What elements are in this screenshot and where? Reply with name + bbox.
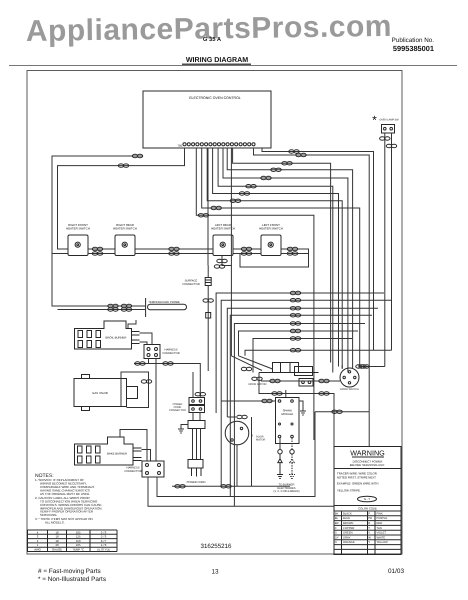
- wire run3 to door motor: [227, 416, 236, 418]
- svg-text:316255216: 316255216: [201, 543, 233, 550]
- bake burner top loop wire: [120, 430, 147, 462]
- wire sw4 right loop: [240, 249, 309, 267]
- wire bottom run 2: [157, 412, 315, 497]
- svg-text:YELLOW STRIPE.: YELLOW STRIPE.: [337, 489, 361, 493]
- svg-text:RED: RED: [377, 522, 383, 525]
- wire below left rear switch: [222, 256, 231, 266]
- wire door switch to lamp lead: [359, 366, 385, 368]
- wire splice: [246, 185, 256, 188]
- wire bus D lower: [207, 286, 209, 372]
- wire splice: [289, 150, 299, 153]
- wire harness left stub: [134, 363, 149, 365]
- wire splice: [290, 349, 300, 352]
- spark electrode wire right: [291, 438, 293, 449]
- svg-text:MODULE: MODULE: [281, 412, 293, 416]
- svg-text:G - Y: G - Y: [364, 497, 371, 501]
- svg-text:BROIL BURNER: BROIL BURNER: [106, 335, 127, 339]
- wire into spark module top: [221, 400, 275, 402]
- svg-text:POWER CORD: POWER CORD: [187, 481, 206, 484]
- ground symbol right of spark module: [300, 411, 306, 415]
- wire door motor area drop 1: [251, 417, 253, 486]
- oven lamp switch: [382, 125, 395, 134]
- wire harness run 5: [234, 324, 365, 507]
- wire splice: [169, 252, 179, 255]
- spark electrode right tip: [289, 450, 295, 479]
- wire middle bus D upper: [207, 148, 209, 266]
- wire fan 7 from terminal: [207, 148, 342, 368]
- wire connector to strain block b: [199, 413, 201, 421]
- wire splice: [271, 168, 281, 171]
- svg-text:ORANGE: ORANGE: [343, 541, 355, 544]
- wire fan 5 from terminal: [218, 148, 333, 373]
- svg-text:R: R: [368, 522, 370, 525]
- wire harness run 1: [216, 293, 384, 413]
- bake burner igniter teeth top row: [78, 446, 101, 453]
- warning box frame: [334, 447, 401, 555]
- wire bus D mid: [207, 266, 209, 278]
- broil burner igniter teeth bottom row: [78, 341, 101, 348]
- svg-text:BROWN: BROWN: [343, 522, 353, 525]
- wire splice: [118, 164, 128, 167]
- surface connector body: [205, 278, 211, 286]
- color code header divider: [334, 505, 401, 507]
- title underline: [182, 64, 251, 65]
- svg-text:*: *: [372, 113, 377, 127]
- wire splice: [290, 291, 300, 294]
- door latch base: [259, 372, 319, 374]
- temperature probe flange: [145, 298, 147, 317]
- gas valve top tab: [82, 375, 90, 379]
- wire harness run 8: [245, 350, 392, 356]
- wire splice: [121, 304, 131, 307]
- wire sw3-sw4 upper: [233, 248, 261, 250]
- wire splice: [290, 329, 300, 332]
- wire splice: [92, 247, 102, 250]
- wire connector to strain block a: [192, 413, 194, 421]
- tracer example oval: [358, 496, 377, 502]
- wire latch to door switch: [261, 380, 340, 382]
- wire oven lamp sw left lead: [384, 133, 386, 367]
- svg-text:UL STYLE: UL STYLE: [97, 548, 110, 552]
- door latch lever: [239, 356, 273, 369]
- temperature probe body: [148, 304, 187, 310]
- svg-text:PR: PR: [368, 517, 372, 520]
- wire broil burner to harness connector 2: [140, 342, 148, 345]
- svg-text:ELECTRONIC OVEN CONTROL: ELECTRONIC OVEN CONTROL: [189, 96, 241, 100]
- wire splice: [132, 154, 142, 157]
- svg-text:TEMPERATURE PROBE: TEMPERATURE PROBE: [148, 300, 180, 304]
- svg-text:BLACK: BLACK: [343, 512, 352, 515]
- wire splice: [237, 415, 247, 418]
- power cord conductors: [193, 429, 201, 460]
- wire splice: [290, 337, 300, 340]
- wire splice: [214, 265, 224, 268]
- svg-text:BAKE BURNER: BAKE BURNER: [107, 452, 127, 456]
- power cord plug body: [188, 460, 203, 469]
- svg-text:(1, 2, 3 OR 4 AREAS): (1, 2, 3 OR 4 AREAS): [274, 490, 300, 493]
- svg-text:G 35 A: G 35 A: [203, 36, 222, 43]
- wire broil burner to harness connector: [140, 333, 153, 345]
- svg-text:HEATER SWITCH: HEATER SWITCH: [259, 227, 283, 231]
- svg-text:COPPER: COPPER: [343, 527, 354, 530]
- wire splice: [290, 307, 300, 310]
- wire latch left drop to bus: [259, 373, 334, 413]
- svg-text:DOOR SWITCH: DOOR SWITCH: [340, 388, 359, 391]
- svg-text:HEATER SWITCH: HEATER SWITCH: [113, 227, 137, 231]
- svg-text:V: V: [368, 532, 370, 535]
- wire splice: [290, 322, 300, 325]
- wire harness run 6: [239, 331, 359, 356]
- power cord connector upper half: [189, 398, 205, 405]
- wire fan 3 from terminal: [227, 148, 352, 368]
- broil burner igniter teeth top row: [78, 331, 101, 338]
- svg-text:EXAMPLE: GREEN WIRE WITH: EXAMPLE: GREEN WIRE WITH: [337, 482, 378, 486]
- wire sw1-sw2 upper: [88, 248, 115, 250]
- svg-text:OVEN LAMP SW: OVEN LAMP SW: [379, 119, 399, 122]
- wire splice: [282, 162, 292, 165]
- door motor circle: [225, 421, 249, 445]
- wire harness run 7: [253, 339, 352, 373]
- wire harness run 2: [221, 300, 391, 486]
- wire splice: [175, 485, 185, 488]
- wire bottom run 3: [148, 412, 334, 506]
- svg-text:BR: BR: [335, 522, 339, 525]
- wire splice: [272, 392, 282, 395]
- door latch cam blocks: [273, 363, 313, 376]
- left rear heater switch: [213, 235, 233, 256]
- wire door area horizontal: [315, 411, 369, 413]
- wire bottom run 1: [172, 485, 290, 487]
- wire splice: [319, 392, 329, 395]
- svg-text:CONNECTOR: CONNECTOR: [162, 352, 179, 355]
- broil burner terminals: [132, 332, 140, 344]
- svg-text:HEATER SWITCH: HEATER SWITCH: [66, 227, 90, 231]
- wire lower probe lead: [58, 309, 146, 311]
- wire EOC-left to temperature probe bus: [52, 156, 145, 306]
- svg-text:DOOR MOTOR: DOOR MOTOR: [248, 383, 266, 386]
- warning divider 1: [334, 468, 401, 470]
- wire splice: [287, 247, 297, 250]
- gas valve body: [74, 379, 127, 407]
- wire fan 2 from terminal: [233, 148, 331, 363]
- junction square on bus D: [206, 313, 211, 319]
- wire sw2-sw3 lower: [135, 253, 213, 255]
- power cord connector lower half: [189, 406, 205, 413]
- wire splice: [198, 214, 208, 217]
- svg-text:TAN: TAN: [377, 527, 382, 530]
- wire splice: [239, 192, 249, 195]
- wire gauge table: [28, 530, 118, 552]
- svg-text:BLUE: BLUE: [343, 517, 350, 520]
- svg-text:TEMP °C: TEMP °C: [72, 548, 84, 552]
- wire down to warning box: [368, 412, 370, 447]
- wire splice: [108, 304, 118, 307]
- wire oven lamp sw right lead: [391, 133, 393, 350]
- wire splice: [290, 314, 300, 317]
- wire sw3-sw4 lower: [233, 253, 261, 255]
- full width rule: [9, 64, 457, 67]
- wire splice: [169, 247, 179, 250]
- wire fan 4 from terminal: [223, 148, 348, 373]
- wire splice: [135, 362, 145, 365]
- gas valve bottom tab: [82, 407, 90, 411]
- wire splice: [241, 252, 251, 255]
- wire splice: [121, 308, 131, 311]
- wire splice: [163, 362, 173, 365]
- spark module body: [276, 398, 300, 444]
- bake burner outline: [75, 437, 134, 465]
- wire splice: [203, 299, 213, 302]
- svg-text:PURPLE: PURPLE: [377, 517, 388, 520]
- wire splice: [261, 176, 271, 179]
- wire spark module to ground: [299, 401, 303, 411]
- svg-text:BK: BK: [335, 512, 339, 515]
- svg-text:# = Fast-moving Parts: # = Fast-moving Parts: [38, 568, 101, 575]
- wire splice: [270, 379, 280, 382]
- svg-text:WHITE: WHITE: [377, 536, 386, 539]
- wire splice: [195, 393, 205, 396]
- ground symbol at power cord: [178, 425, 188, 434]
- wire probe to broil step: [128, 320, 136, 329]
- svg-text:5995385001: 5995385001: [393, 44, 434, 53]
- svg-text:G: G: [335, 532, 337, 535]
- gas valve wire loop: [121, 372, 149, 408]
- wire into power cord connector 2: [192, 372, 194, 398]
- wire bus to right front switch lower: [52, 253, 68, 255]
- svg-text:YELLOW: YELLOW: [377, 541, 389, 544]
- wire EOC terminal1 to right front switch: [58, 148, 185, 249]
- spark electrode left tip: [277, 450, 283, 479]
- svg-text:C: C: [335, 527, 337, 530]
- svg-text:NOTED FIRST, STRIPE NEXT.: NOTED FIRST, STRIPE NEXT.: [337, 475, 377, 479]
- svg-text:T: T: [368, 527, 370, 530]
- schematic border frame: [27, 71, 402, 555]
- svg-text:Y: Y: [368, 541, 370, 544]
- svg-text:BL: BL: [335, 517, 339, 520]
- left front heater switch: [261, 235, 281, 256]
- harness connector (broil): [144, 345, 160, 359]
- wire fan 1 from terminal: [254, 148, 370, 412]
- wire splice: [332, 410, 342, 413]
- wire harness to power cord connector: [149, 359, 201, 398]
- svg-text:GAS VALVE: GAS VALVE: [92, 391, 108, 395]
- wire splice: [262, 399, 272, 402]
- wire splice: [241, 247, 251, 250]
- color code table: [334, 511, 401, 554]
- bake burner igniter teeth bottom row: [78, 456, 101, 463]
- wire fan 8 from terminal: [202, 148, 360, 367]
- power cord plug prongs: [192, 468, 202, 477]
- svg-text:P: P: [368, 512, 370, 515]
- door switch circle: [340, 368, 359, 387]
- wire splice: [211, 206, 221, 209]
- wire harness run 3: [227, 308, 378, 417]
- right rear heater switch: [115, 235, 135, 256]
- harness connector (bake): [142, 461, 164, 477]
- wire splice: [221, 485, 231, 488]
- wire bake to harness conn 2: [142, 450, 151, 462]
- spark module terminals: [278, 400, 293, 438]
- right front heater switch: [68, 235, 88, 256]
- wire splice: [241, 367, 251, 370]
- wire sw2-sw3 upper: [135, 248, 213, 250]
- wire splice: [359, 365, 369, 368]
- wire door motor bottom lead: [236, 445, 238, 487]
- svg-text:01/03: 01/03: [388, 568, 404, 575]
- svg-text:O: O: [335, 541, 337, 544]
- wire sw4 lower stub: [281, 253, 309, 255]
- svg-text:GREEN: GREEN: [343, 532, 353, 535]
- svg-text:TB1: TB1: [177, 143, 183, 147]
- svg-text:PINK: PINK: [377, 512, 383, 515]
- svg-text:13: 13: [211, 569, 219, 576]
- spark electrode wire left: [279, 438, 281, 449]
- svg-text:COLOR CODE: COLOR CODE: [358, 507, 377, 511]
- broil burner outline: [75, 321, 132, 349]
- wire splice: [230, 199, 240, 202]
- svg-text:WARNING: WARNING: [350, 449, 385, 458]
- svg-text:ALL MODELS.: ALL MODELS.: [45, 521, 65, 525]
- svg-text:CONNECTOR: CONNECTOR: [169, 409, 186, 412]
- wire fan 9 from terminal: [196, 148, 314, 440]
- wire EOC right top: [262, 148, 374, 350]
- wire splice: [287, 252, 297, 255]
- wire splice: [386, 144, 396, 147]
- wire into door switch: [341, 365, 343, 369]
- svg-text:CONNECTOR: CONNECTOR: [182, 283, 199, 286]
- svg-text:GRAY: GRAY: [343, 536, 351, 539]
- wire splice: [217, 259, 227, 262]
- svg-text:GAUGE: GAUGE: [52, 548, 62, 552]
- svg-text:BEFORE SERVICING UNIT.: BEFORE SERVICING UNIT.: [350, 463, 386, 467]
- door latch switch block: [299, 379, 313, 387]
- svg-text:WIRING DIAGRAM: WIRING DIAGRAM: [186, 56, 248, 64]
- wire splice: [356, 365, 366, 368]
- wire harness broil to bake vertical: [155, 359, 157, 462]
- svg-text:VIOLET: VIOLET: [377, 532, 387, 535]
- power cord strain relief block: [188, 421, 205, 429]
- wire into spark module from above: [285, 390, 287, 398]
- wire fan 6 from terminal: [213, 148, 339, 367]
- wire middle bus A with diagonal to latch: [231, 148, 262, 371]
- svg-text:CONNECTOR: CONNECTOR: [124, 470, 141, 473]
- wire gas valve vertical: [120, 372, 122, 407]
- wire splice: [319, 379, 329, 382]
- wire splice: [92, 252, 102, 255]
- wire splice: [141, 380, 151, 383]
- svg-text:W: W: [368, 536, 371, 539]
- svg-text:Publication No.: Publication No.: [392, 37, 435, 44]
- svg-text:AWG: AWG: [34, 548, 41, 552]
- wire splice: [252, 377, 262, 380]
- bake burner terminals: [133, 448, 142, 461]
- svg-text:MOTOR: MOTOR: [256, 438, 265, 441]
- wire splice: [108, 308, 118, 311]
- wire splice: [296, 153, 306, 156]
- wire splice: [290, 299, 300, 302]
- wire splice: [380, 137, 390, 140]
- wire harness run 4: [230, 315, 372, 496]
- svg-text:GY: GY: [335, 536, 339, 539]
- svg-text:* = Non-Illustrated Parts: * = Non-Illustrated Parts: [38, 576, 106, 583]
- gas valve right port: [127, 387, 138, 399]
- electronic oven control board: [143, 91, 271, 148]
- EOC terminal circles: [183, 143, 255, 146]
- wire sw1-sw2 lower: [88, 253, 115, 255]
